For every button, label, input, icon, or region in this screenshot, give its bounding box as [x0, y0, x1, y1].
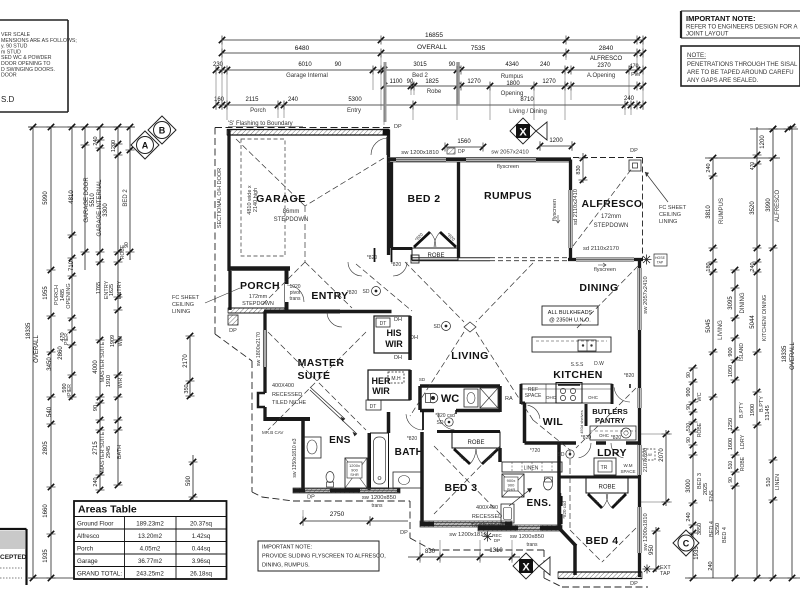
important note box bottom (flyscreen) — [258, 541, 386, 571]
svg-text:3450: 3450 — [47, 357, 53, 371]
svg-text:SHR: SHR — [507, 487, 516, 492]
svg-text:*820: *820 — [611, 435, 622, 441]
bed3 niche note + leader — [471, 488, 532, 529]
svg-text:5300: 5300 — [348, 97, 362, 103]
svg-text:240: 240 — [93, 477, 99, 486]
ext tap symbol right of dining — [642, 254, 668, 266]
svg-text:3095: 3095 — [728, 296, 734, 310]
svg-text:ANY GAPS ARE SEALED.: ANY GAPS ARE SEALED. — [687, 78, 759, 84]
wall her-wir to bath — [408, 370, 412, 400]
wall wir right (to living) — [408, 316, 412, 360]
wall ens2 bottom with window + hatch — [478, 525, 562, 548]
svg-text:trans: trans — [371, 503, 383, 509]
svg-text:M.H: M.H — [391, 376, 401, 382]
left dim chain 4810/710/porch opening — [54, 124, 77, 400]
svg-text:SD: SD — [363, 289, 370, 295]
wall bed4 bottom with hatch — [558, 572, 642, 587]
dims 830 / 1310 below bed3 — [408, 532, 520, 564]
hall bulkhead dashed to dining — [490, 257, 570, 259]
wall master bottom — [264, 417, 310, 421]
svg-text:BED 4: BED 4 — [586, 535, 619, 547]
top dim extension lines — [216, 36, 643, 125]
svg-text:*720: *720 — [530, 448, 541, 454]
wall garage/entry divider — [387, 137, 389, 255]
right dim chain alfresco 3990 / linen — [760, 126, 781, 581]
roof line porch hip sw — [262, 262, 305, 305]
left dim chain overall 18335 — [26, 124, 40, 581]
svg-text:PROVIDE SLIDING FLYSCREEN TO A: PROVIDE SLIDING FLYSCREEN TO ALFRESCO, — [262, 554, 386, 560]
svg-text:BED 2: BED 2 — [408, 193, 441, 205]
svg-text:CEILING: CEILING — [659, 212, 681, 218]
left dim chain bed2 / robe — [120, 124, 135, 260]
svg-text:OHC: OHC — [546, 395, 557, 400]
svg-text:LW: LW — [646, 452, 652, 457]
his wir box — [374, 316, 418, 361]
svg-text:sw 2057x2410: sw 2057x2410 — [643, 276, 649, 313]
svg-text:flyscreen: flyscreen — [497, 164, 519, 170]
right dim chain dining/island/bpty — [728, 267, 746, 581]
svg-text:18335: 18335 — [782, 345, 788, 362]
svg-text:TILED NICHE: TILED NICHE — [272, 400, 307, 406]
svg-text:HOSE: HOSE — [655, 256, 666, 260]
roof line living sw — [410, 332, 464, 416]
svg-text:B.PTY: B.PTY — [739, 402, 745, 418]
master door arc *820 — [327, 290, 357, 327]
svg-text:Porch: Porch — [77, 546, 94, 553]
svg-text:240: 240 — [708, 561, 714, 570]
svg-text:DOOR: DOOR — [1, 73, 17, 79]
wc room walls — [420, 386, 500, 412]
standalone dim 950 + ext tap bottom right — [643, 527, 672, 577]
svg-text:KITCHEN: KITCHEN — [553, 369, 602, 381]
svg-text:STEPDOWN: STEPDOWN — [594, 223, 629, 229]
ens master toilet — [326, 472, 334, 488]
front door arc + label — [287, 284, 304, 302]
svg-text:D.W: D.W — [594, 361, 604, 367]
svg-text:ALFRESCO: ALFRESCO — [582, 198, 643, 210]
svg-text:flyscreen: flyscreen — [552, 199, 558, 221]
svg-text:6010: 6010 — [298, 62, 312, 68]
svg-text:@ 2350H U.N.O.: @ 2350H U.N.O. — [549, 318, 591, 324]
svg-text:3015: 3015 — [413, 62, 427, 68]
svg-text:Ground Floor: Ground Floor — [77, 521, 113, 528]
svg-text:90: 90 — [449, 62, 456, 68]
svg-text:ISLAND: ISLAND — [739, 343, 745, 361]
svg-text:SPACE: SPACE — [621, 469, 636, 474]
svg-text:sw 1200x1810: sw 1200x1810 — [401, 150, 438, 156]
ldry/robe band + triangles — [559, 477, 640, 508]
svg-text:ENS: ENS — [709, 490, 715, 502]
svg-text:A: A — [142, 141, 149, 151]
svg-text:KITCHEN/ DINING: KITCHEN/ DINING — [762, 295, 768, 341]
roof line living nw — [405, 262, 464, 322]
top dim line robe / rumpus opening — [381, 74, 646, 95]
wall hall/kitchen left — [520, 384, 523, 404]
svg-text:160: 160 — [214, 97, 225, 103]
svg-text:ENS: ENS — [329, 435, 351, 446]
svg-text:3850: 3850 — [697, 523, 703, 535]
svg-text:3300: 3300 — [103, 203, 109, 217]
kitchen island — [532, 337, 611, 368]
svg-text:DP: DP — [394, 124, 402, 130]
left block bottom tie line — [28, 577, 105, 579]
svg-text:Robe: Robe — [427, 89, 442, 95]
right dim chain overall 18335 — [782, 124, 797, 581]
svg-text:13145: 13145 — [765, 405, 771, 420]
wall kitchen/bp divider + bp door — [612, 373, 634, 404]
roof line kitchen valley b — [533, 420, 570, 450]
svg-text:WIR: WIR — [385, 339, 403, 349]
wc fixtures + label — [419, 377, 513, 419]
svg-text:OVERALL: OVERALL — [417, 44, 447, 51]
smoke detector living — [434, 322, 451, 331]
svg-text:LIVING: LIVING — [451, 350, 488, 362]
hall wall below bed2 robe (double line) — [412, 258, 490, 261]
svg-text:2715: 2715 — [93, 441, 99, 455]
roof line garage ridge — [304, 206, 306, 262]
DP black square garage corner — [383, 124, 402, 135]
svg-text:Garage: Garage — [77, 558, 98, 565]
svg-text:LINING: LINING — [659, 219, 677, 225]
svg-text:5510: 5510 — [90, 193, 96, 207]
svg-text:3520: 3520 — [750, 201, 756, 215]
svg-text:540: 540 — [47, 406, 53, 417]
svg-text:7535: 7535 — [471, 45, 486, 52]
svg-text:16855: 16855 — [425, 32, 443, 39]
svg-text:OHC: OHC — [599, 433, 610, 438]
svg-text:240: 240 — [686, 512, 692, 521]
wall bed3 bottom with window + hatch — [400, 521, 512, 538]
svg-text:90: 90 — [728, 477, 734, 483]
svg-text:240: 240 — [93, 136, 99, 145]
svg-text:2370: 2370 — [597, 63, 611, 69]
linen band — [502, 462, 562, 472]
svg-text:2115: 2115 — [246, 97, 260, 103]
svg-text:CEILING: CEILING — [172, 302, 194, 308]
svg-text:ENS.: ENS. — [527, 498, 552, 509]
room label PORCH — [240, 280, 280, 307]
wall master left with window + niche — [256, 312, 267, 422]
svg-text:DP: DP — [307, 495, 315, 501]
room label MASTER SUITE — [298, 357, 345, 382]
svg-text:Alfresco: Alfresco — [77, 533, 100, 540]
svg-text:NOTE:: NOTE: — [687, 52, 706, 59]
wall house front (bed2/rumpus) with windows — [388, 158, 571, 163]
svg-text:sw 1800x2170: sw 1800x2170 — [256, 332, 262, 366]
svg-text:3990: 3990 — [766, 198, 772, 212]
smoke detector entry — [363, 287, 381, 296]
svg-text:DP: DP — [494, 538, 500, 543]
bed4 lower-left wall — [573, 544, 577, 575]
svg-text:350: 350 — [184, 384, 190, 393]
svg-text:5990: 5990 — [43, 191, 49, 205]
wall bed2 left — [390, 162, 393, 248]
svg-text:6480: 6480 — [295, 45, 310, 52]
svg-text:STEPDOWN: STEPDOWN — [274, 217, 309, 223]
bed3 robe band + sliding triangles — [437, 432, 500, 465]
svg-text:26.18sq: 26.18sq — [190, 571, 213, 578]
svg-text:1825: 1825 — [425, 79, 439, 85]
bed2 robe — [392, 232, 459, 263]
left dim chain garage internal / master suite / bath — [93, 124, 112, 493]
wall porch bottom with hatch — [228, 308, 288, 313]
top dim line garage internal / bed2 / 4340 — [213, 62, 646, 79]
svg-text:1310: 1310 — [489, 548, 503, 554]
svg-text:1935: 1935 — [43, 549, 49, 563]
svg-text:sw 1200x850: sw 1200x850 — [362, 495, 396, 501]
left dim chain 5990/1955/3450 — [43, 124, 73, 581]
wall rumpus/alfresco divider with sliding door — [552, 160, 579, 260]
ens master shower — [345, 458, 367, 488]
svg-text:590: 590 — [186, 475, 192, 486]
svg-text:ALL BULKHEADS: ALL BULKHEADS — [548, 310, 593, 316]
svg-text:2805: 2805 — [43, 441, 49, 455]
svg-text:BATH: BATH — [117, 445, 123, 459]
standalone dim 2170/350 left of master — [183, 333, 195, 399]
svg-text:DINING: DINING — [740, 292, 746, 313]
wall garage left — [227, 130, 230, 272]
roof line bed3 X a — [434, 446, 500, 514]
garage slab dashed rect — [241, 139, 285, 256]
window label sw 1200x1810 + DP — [401, 148, 465, 156]
svg-text:900: 900 — [728, 347, 734, 356]
svg-text:ROBE: ROBE — [740, 456, 746, 471]
svg-text:PANTRY: PANTRY — [595, 416, 625, 425]
svg-text:ROBE: ROBE — [467, 440, 484, 446]
bed4 diagonal wall — [559, 528, 576, 546]
svg-text:243.25m2: 243.25m2 — [136, 571, 164, 578]
svg-text:2945: 2945 — [106, 446, 112, 458]
svg-text:1250: 1250 — [728, 418, 734, 430]
svg-text:510: 510 — [728, 461, 734, 470]
svg-text:OHC: OHC — [588, 395, 599, 400]
right dim chain rumpus/living — [706, 155, 725, 578]
roof line master X a — [268, 332, 366, 430]
wall bath/ens bottom with windows + hatch — [293, 488, 400, 493]
svg-text:2070: 2070 — [659, 448, 665, 462]
all bulkheads box — [542, 306, 598, 325]
wall ens/bath divider + bath tub — [369, 412, 389, 490]
svg-text:830: 830 — [425, 549, 436, 555]
svg-text:0.44sq: 0.44sq — [192, 546, 211, 553]
wall bed3 left — [420, 432, 424, 524]
svg-text:240: 240 — [624, 96, 635, 102]
svg-text:WIR: WIR — [118, 336, 124, 347]
ldry tap dashed box — [643, 449, 655, 460]
roof line kitchen valley a — [576, 388, 636, 448]
wall garage top with hatch — [227, 130, 388, 136]
marker X bottom (section) — [513, 553, 550, 579]
svg-text:GRAND TOTAL:: GRAND TOTAL: — [77, 571, 122, 578]
svg-text:IMPORTANT NOTE:: IMPORTANT NOTE: — [686, 14, 755, 23]
svg-text:RUMPUS: RUMPUS — [719, 198, 725, 224]
marker X top (section) — [510, 118, 547, 144]
svg-text:LINING: LINING — [172, 309, 190, 315]
svg-text:ENTRY: ENTRY — [311, 290, 348, 302]
svg-text:BATH: BATH — [395, 447, 424, 458]
section marker C — [673, 530, 699, 556]
svg-text:3250: 3250 — [715, 523, 721, 535]
ens2 toilet — [544, 477, 553, 490]
wall right of bed3 robe / ens2 left — [498, 448, 502, 462]
left dim chain entry / wir / bath names — [96, 124, 124, 488]
top dim line porch / entry / opening 8710 — [213, 91, 646, 115]
svg-text:8710: 8710 — [520, 97, 534, 103]
wall garage bottom — [229, 266, 290, 271]
kitchen bench + stove + ref space — [521, 383, 612, 404]
master niche note + leaders — [272, 383, 357, 436]
roof line bed4 hip w — [570, 530, 602, 562]
svg-text:400X400: 400X400 — [272, 383, 294, 389]
svg-text:SD: SD — [419, 377, 426, 382]
svg-text:90: 90 — [335, 62, 342, 68]
svg-text:WIR: WIR — [372, 386, 390, 396]
wall dining north / alfresco sliding door sd 2110x2170 — [568, 246, 643, 273]
svg-text:450d shelves: 450d shelves — [579, 410, 584, 434]
svg-text:DT: DT — [380, 321, 387, 327]
FC sheet ceiling lining note right + leader — [645, 172, 687, 225]
svg-text:180: 180 — [706, 262, 712, 271]
svg-text:240: 240 — [540, 62, 551, 68]
roof line entry hip se — [305, 262, 352, 308]
wil walls + door — [521, 403, 560, 454]
svg-text:S.S.S: S.S.S — [571, 362, 584, 368]
svg-text:STEPDOWN: STEPDOWN — [242, 301, 274, 307]
svg-text:BED 2: BED 2 — [123, 189, 129, 207]
svg-text:WC: WC — [441, 393, 459, 405]
standalone dim 590 left of ens — [186, 455, 198, 500]
left block top tie line — [28, 126, 135, 128]
svg-text:CEPTED: CEPTED — [0, 554, 27, 561]
porch DP box — [228, 315, 238, 334]
svg-text:90: 90 — [686, 404, 692, 410]
svg-text:GARAGE: GARAGE — [256, 193, 306, 205]
svg-text:OVERALL: OVERALL — [790, 342, 796, 370]
garage internal door arc — [371, 138, 388, 155]
svg-text:36.77m2: 36.77m2 — [138, 558, 163, 565]
svg-text:B: B — [159, 126, 166, 136]
svg-text:90: 90 — [93, 405, 99, 411]
svg-text:1.42sq: 1.42sq — [192, 533, 211, 540]
svg-text:*820: *820 — [407, 436, 418, 442]
svg-text:DP: DP — [630, 148, 638, 154]
svg-text:189.23m2: 189.23m2 — [136, 521, 164, 528]
svg-text:240: 240 — [750, 262, 756, 271]
roof line bed3 X b — [434, 446, 500, 514]
svg-text:A.Opening: A.Opening — [587, 73, 615, 79]
wall ens left below master — [301, 419, 305, 490]
roof line living se — [476, 332, 533, 420]
svg-text:20.37sq: 20.37sq — [190, 521, 213, 528]
svg-text:2170: 2170 — [183, 354, 189, 368]
bath vanity bottom — [393, 472, 422, 488]
svg-text:ALFRESCO: ALFRESCO — [775, 189, 781, 222]
svg-text:1955: 1955 — [43, 286, 49, 300]
svg-text:W.M: W.M — [624, 463, 633, 468]
svg-text:Entry: Entry — [347, 108, 361, 114]
areas table — [74, 501, 227, 579]
wall porch left — [228, 271, 231, 310]
wall garage right upper — [387, 130, 390, 158]
wall porch right / front door jamb — [285, 268, 287, 313]
svg-text:1600: 1600 — [728, 438, 734, 450]
svg-text:RECESSED: RECESSED — [272, 392, 302, 398]
important note box top-right — [681, 11, 800, 38]
svg-text:510: 510 — [766, 477, 772, 486]
dim 1200 alfresco opening — [537, 138, 575, 151]
svg-text:HIS: HIS — [386, 328, 401, 338]
svg-text:trans: trans — [526, 542, 538, 548]
svg-text:90: 90 — [124, 242, 130, 248]
room label ALFRESCO — [582, 198, 643, 229]
svg-text:DT: DT — [370, 404, 377, 410]
ldry left wall — [557, 443, 561, 528]
svg-text:1900: 1900 — [750, 404, 756, 416]
svg-text:2840: 2840 — [599, 45, 614, 52]
svg-text:Rumpus: Rumpus — [501, 74, 523, 80]
svg-text:1560: 1560 — [457, 139, 471, 145]
svg-text:BUTLERS: BUTLERS — [592, 407, 627, 416]
svg-text:BED 3: BED 3 — [445, 482, 478, 494]
svg-text:*820: *820 — [391, 262, 402, 268]
wall bed2/rumpus divider — [457, 162, 460, 258]
svg-text:1765: 1765 — [96, 282, 102, 294]
svg-text:86mm: 86mm — [283, 209, 300, 215]
ldry top wall + doors *820 — [560, 435, 640, 458]
svg-text:DINING: DINING — [579, 282, 618, 294]
svg-text:240: 240 — [706, 163, 712, 172]
svg-text:90: 90 — [686, 372, 692, 378]
svg-text:ALFRESCO: ALFRESCO — [590, 56, 623, 62]
svg-text:DINING, RUMPUS.: DINING, RUMPUS. — [262, 563, 310, 569]
svg-text:1200: 1200 — [549, 138, 563, 144]
dim 1560 over front window — [442, 139, 486, 152]
svg-text:FC SHEET: FC SHEET — [659, 205, 687, 211]
svg-text:WIR: WIR — [118, 378, 124, 389]
svg-text:1100: 1100 — [390, 79, 404, 85]
svg-text:TAP: TAP — [660, 571, 671, 577]
svg-text:RECESSED: RECESSED — [472, 514, 502, 520]
svg-text:PIER: PIER — [64, 333, 70, 345]
svg-text:X: X — [522, 562, 530, 574]
wc hall door arc — [438, 410, 456, 430]
dim 2750 below ens — [300, 510, 408, 526]
svg-text:3810: 3810 — [706, 205, 712, 219]
svg-text:DH: DH — [394, 355, 402, 361]
svg-text:sw 1350x1810 e3: sw 1350x1810 e3 — [292, 438, 298, 477]
svg-text:BED 4: BED 4 — [722, 527, 728, 543]
FC sheet ceiling lining note left — [172, 288, 240, 315]
svg-text:RA: RA — [505, 396, 513, 402]
svg-text:5045: 5045 — [706, 319, 712, 333]
svg-text:FC SHEET: FC SHEET — [172, 295, 200, 301]
svg-text:4340: 4340 — [505, 62, 519, 68]
svg-text:SD: SD — [558, 452, 565, 458]
svg-text:1050: 1050 — [728, 365, 734, 377]
svg-text:Pier: Pier — [631, 72, 641, 78]
svg-text:sw 1200x1810: sw 1200x1810 — [643, 513, 649, 550]
svg-text:WIL: WIL — [543, 416, 564, 428]
svg-text:400X400: 400X400 — [476, 505, 498, 511]
ens2 vanity — [501, 504, 514, 523]
svg-text:4.05m2: 4.05m2 — [140, 546, 161, 553]
standalone dim 2070 right of ldry — [640, 430, 672, 506]
svg-text:S.D: S.D — [1, 95, 15, 104]
roof line living ne — [476, 263, 533, 322]
svg-text:ROBE: ROBE — [697, 422, 703, 437]
svg-text:240: 240 — [288, 97, 299, 103]
svg-text:830: 830 — [576, 165, 582, 174]
